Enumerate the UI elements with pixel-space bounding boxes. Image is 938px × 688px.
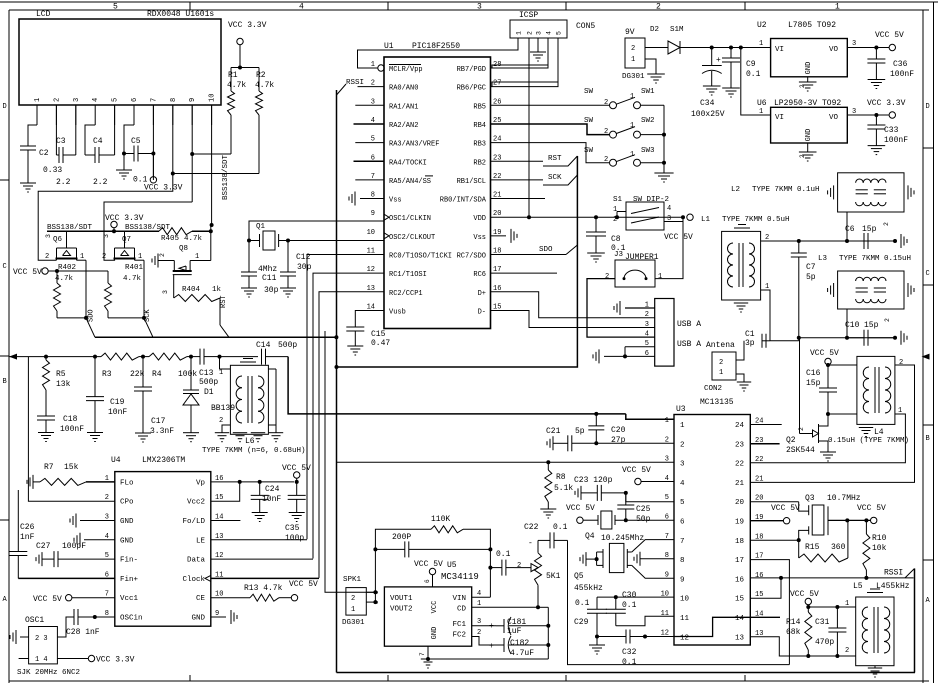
- resistor R15 360: [799, 520, 848, 562]
- svg-text:VCC: VCC: [431, 601, 439, 614]
- U3 pin23 number: [735, 437, 763, 450]
- svg-text:3: 3: [103, 234, 110, 238]
- svg-text:7: 7: [680, 538, 685, 546]
- capacitor C2: [20, 146, 62, 183]
- connector USB A: [655, 299, 702, 367]
- svg-text:20: 20: [735, 499, 745, 507]
- U3 pin24 number: [735, 418, 763, 431]
- capacitor C27 100pF: [36, 542, 115, 567]
- svg-text:TYPE 7KMM (n=6, 0.68uH): TYPE 7KMM (n=6, 0.68uH): [202, 447, 306, 455]
- label BSS138/SDT: [125, 224, 171, 232]
- capacitor C19 10nF: [86, 357, 127, 433]
- svg-text:1: 1: [630, 93, 634, 101]
- U3 pin7 number: [665, 533, 685, 546]
- U1 pin3 stub: [355, 104, 384, 106]
- svg-text:VOUT1: VOUT1: [390, 595, 413, 603]
- svg-text:D1: D1: [204, 388, 214, 397]
- power VCC 3.3V: [105, 214, 144, 233]
- svg-text:15: 15: [735, 596, 745, 604]
- LCD pin 5: [112, 98, 120, 125]
- USB pin5-6 wire: [604, 347, 655, 359]
- svg-text:VCC 3.3V: VCC 3.3V: [96, 656, 135, 665]
- U1 pin19 Vss ground: [491, 229, 518, 243]
- svg-text:Q4: Q4: [585, 532, 595, 541]
- svg-text:SDO: SDO: [88, 309, 96, 322]
- svg-text:C32: C32: [622, 648, 637, 657]
- svg-text:R1: R1: [228, 71, 238, 80]
- svg-text:GND: GND: [431, 627, 439, 640]
- USB pin 1: [645, 302, 649, 310]
- svg-text:DG301: DG301: [622, 73, 645, 81]
- resistor R402 4.7k: [54, 264, 87, 318]
- svg-text:BB139: BB139: [211, 404, 235, 413]
- IC U5 MC34119: [384, 561, 478, 646]
- U1 pin 18 label: [457, 253, 486, 261]
- svg-text:C29: C29: [574, 618, 589, 627]
- svg-text:C16: C16: [806, 369, 821, 378]
- svg-text:VCC 3.3V: VCC 3.3V: [228, 21, 267, 30]
- resistor R1 4.7k: [227, 68, 246, 155]
- U1 pin 11 label: [389, 253, 452, 261]
- resistor R2 4.7k: [255, 68, 274, 174]
- svg-text:C13: C13: [199, 369, 214, 378]
- svg-text:USB A: USB A: [677, 340, 701, 349]
- ground: [868, 80, 886, 89]
- svg-text:2.2: 2.2: [93, 178, 108, 187]
- ground: [289, 513, 305, 522]
- CON5 pin1 wire: [517, 38, 519, 47]
- power VCC 5V: [875, 31, 904, 40]
- svg-text:CE: CE: [196, 595, 206, 603]
- svg-text:C5: C5: [131, 137, 141, 146]
- resistor R401 4.7k: [105, 264, 145, 318]
- svg-text:0.33: 0.33: [43, 166, 62, 175]
- transistor Q8 BSS138: [152, 245, 211, 275]
- svg-text:C20: C20: [611, 426, 626, 435]
- U1 pin 15 label: [478, 308, 486, 316]
- resistor R14 68k: [786, 607, 812, 658]
- svg-text:3: 3: [73, 98, 81, 102]
- svg-text:DG301: DG301: [342, 619, 365, 627]
- svg-text:200P: 200P: [392, 533, 411, 542]
- U4 pin4 ground: [74, 533, 115, 547]
- svg-text:VCC 5V: VCC 5V: [414, 560, 443, 569]
- svg-text:Q2: Q2: [786, 436, 796, 445]
- U3 pin13 number: [735, 630, 763, 643]
- svg-text:2: 2: [680, 441, 685, 449]
- wire LE: [211, 539, 307, 541]
- LCD pin 2: [53, 98, 61, 125]
- svg-text:5p: 5p: [806, 273, 816, 282]
- U3 pin6 number: [665, 514, 685, 527]
- svg-text:2: 2: [159, 253, 166, 257]
- U1 pin 6 label: [389, 159, 427, 167]
- svg-text:MC34119: MC34119: [441, 572, 479, 582]
- svg-text:2: 2: [899, 359, 903, 367]
- svg-text:4: 4: [680, 480, 685, 488]
- svg-text:4.7k: 4.7k: [55, 275, 74, 283]
- svg-text:100pF: 100pF: [62, 542, 86, 551]
- OSC1 pin2 ground: [10, 630, 29, 644]
- USB pin 4: [645, 330, 649, 338]
- U4 pin1 label: [105, 475, 134, 488]
- wire S1 pin1: [617, 212, 626, 218]
- svg-text:RSSI: RSSI: [346, 79, 364, 87]
- svg-text:2: 2: [102, 253, 106, 261]
- U1 pin 21 label: [440, 197, 487, 205]
- ground: [233, 433, 247, 442]
- U4 pin16 label: [196, 475, 223, 488]
- inductor L2 transformer: [828, 173, 914, 212]
- svg-text:L2: L2: [731, 186, 740, 194]
- svg-text:Vcc2: Vcc2: [187, 499, 205, 507]
- svg-text:2: 2: [631, 45, 635, 53]
- svg-text:1: 1: [516, 31, 523, 35]
- U5 pin labels: [390, 595, 466, 640]
- svg-text:L455kHz: L455kHz: [876, 582, 910, 591]
- svg-text:C4: C4: [93, 137, 103, 146]
- CON5 pin2 wire: [528, 38, 530, 217]
- U1 pin28 wire: [491, 65, 549, 68]
- junction: [122, 152, 155, 156]
- power VCC 5V: [33, 595, 115, 605]
- svg-text:RB2: RB2: [473, 159, 486, 167]
- net flag RSSI: [884, 569, 915, 578]
- svg-text:1: 1: [351, 606, 355, 614]
- ground: [135, 433, 151, 442]
- U1 pin 2 label: [389, 85, 418, 93]
- ground: [251, 433, 265, 442]
- svg-text:SW3: SW3: [641, 147, 655, 155]
- U3 pin13 wire: [750, 637, 808, 656]
- capacitor C5: [124, 137, 153, 185]
- svg-text:9V: 9V: [625, 28, 635, 37]
- svg-text:SCK: SCK: [548, 174, 562, 182]
- svg-text:100k: 100k: [178, 370, 197, 379]
- svg-text:1: 1: [195, 253, 199, 261]
- wire L2 to C6: [846, 212, 848, 241]
- svg-text:5.1k: 5.1k: [554, 484, 573, 493]
- svg-text:R3: R3: [102, 370, 112, 379]
- svg-text:LMX2306TM: LMX2306TM: [142, 456, 185, 465]
- label BSS138/SDT vertical: [222, 154, 230, 200]
- wire C14 to U3 pin1: [288, 357, 674, 420]
- junction: [247, 239, 290, 243]
- capacitor C10 15p: [845, 318, 895, 346]
- wire L6 right pins: [269, 369, 277, 433]
- U3 pin5 number: [665, 494, 685, 507]
- wire pin9 net: [190, 105, 231, 202]
- wire pin9 diagonal: [627, 565, 674, 578]
- svg-text:FLo: FLo: [120, 479, 134, 487]
- svg-text:22k: 22k: [130, 370, 145, 379]
- svg-text:5K1: 5K1: [546, 572, 561, 581]
- resistor 110K: [431, 515, 463, 533]
- U3 pin20 number: [735, 495, 763, 508]
- capacitor 0.1 vin: [490, 550, 514, 576]
- zone labels top: [113, 3, 840, 12]
- wire gate rail: [47, 230, 159, 232]
- U1 pin 24 label: [473, 141, 486, 149]
- svg-text:R402: R402: [58, 264, 76, 272]
- svg-text:0.1: 0.1: [746, 70, 761, 79]
- U1 pin 25 number: [493, 117, 501, 125]
- wire FC1: [472, 618, 496, 631]
- svg-text:Vcc1: Vcc1: [120, 595, 139, 603]
- wire: [162, 275, 174, 298]
- svg-text:470p: 470p: [815, 638, 834, 647]
- U6 pin3 wire: [847, 108, 895, 118]
- capacitor C30 0.1: [597, 591, 674, 626]
- U3 pin21 number: [735, 475, 763, 488]
- svg-text:VO: VO: [829, 46, 839, 54]
- U1 pin17 stub: [491, 272, 558, 274]
- power VCC 5V pin4: [622, 466, 674, 485]
- LCD module U1601: [19, 10, 221, 105]
- wire OSC1 pin1: [19, 658, 29, 660]
- svg-text:17: 17: [735, 557, 744, 565]
- svg-text:23: 23: [735, 441, 745, 449]
- svg-text:GND: GND: [120, 518, 134, 526]
- power VCC 5V: [810, 349, 839, 367]
- svg-text:Q3: Q3: [805, 494, 815, 503]
- USB pin1 ground: [614, 301, 655, 315]
- IC U4 LMX2306TM: [111, 456, 211, 626]
- capacitor C13 500p: [197, 349, 220, 365]
- border arrow right: [922, 354, 930, 360]
- U1 pin8 Vss ground: [349, 192, 384, 206]
- label L3: [818, 255, 911, 263]
- wire Fin+: [18, 577, 115, 579]
- svg-text:1: 1: [219, 369, 223, 377]
- wire osc1 net: [249, 221, 384, 241]
- wire battery minus: [645, 59, 656, 74]
- USB pin 5: [645, 340, 649, 348]
- junction SDO node: [84, 309, 96, 322]
- ground: [530, 52, 546, 61]
- ground: [589, 637, 605, 655]
- resistor R3 22k: [101, 353, 149, 379]
- LCD pin 6: [131, 98, 139, 125]
- svg-text:B: B: [3, 378, 7, 386]
- U1 pin 12 label: [389, 271, 427, 279]
- U3 pin24 stub: [750, 424, 781, 426]
- U3 pin4 number: [665, 475, 685, 488]
- wire S1 pin3: [664, 221, 683, 223]
- capacitor C25 50p: [617, 493, 650, 524]
- U1 pin 24 number: [493, 136, 501, 144]
- wire J3 pin2 to USB pin4: [587, 279, 655, 338]
- capacitor C7 5p: [791, 241, 816, 338]
- svg-text:2: 2: [351, 595, 355, 603]
- wire pin8 net: [171, 105, 259, 176]
- svg-text:TYPE 7KMM 0.5uH: TYPE 7KMM 0.5uH: [722, 216, 790, 224]
- wire Clock: [211, 577, 319, 579]
- svg-text:9: 9: [371, 210, 375, 218]
- wire: [210, 223, 214, 261]
- ground: [868, 668, 882, 677]
- capacitor C11 30p: [241, 241, 279, 296]
- svg-text:68k: 68k: [786, 628, 801, 637]
- svg-text:Data: Data: [187, 557, 206, 565]
- svg-text:C: C: [926, 270, 930, 278]
- svg-text:Q8: Q8: [179, 245, 188, 253]
- U1 pin 4 label: [389, 122, 418, 130]
- U1 pin 8 number: [371, 192, 375, 200]
- CON5 pin 4: [546, 31, 553, 38]
- svg-text:SJK 20MHz 6NC2: SJK 20MHz 6NC2: [17, 669, 80, 677]
- capacitor C29 0.1: [574, 599, 607, 639]
- svg-text:100nF: 100nF: [884, 136, 908, 145]
- capacitor C33 100nF: [867, 115, 908, 146]
- U3 pin14 number: [735, 611, 763, 624]
- power VCC 3.3V: [228, 21, 267, 68]
- wire pin7 diagonal: [627, 540, 674, 552]
- svg-text:16: 16: [735, 576, 745, 584]
- CON5 pin 3: [536, 31, 543, 38]
- wire RSSI vertical: [336, 90, 338, 673]
- U1 pin6 stub: [354, 160, 385, 162]
- svg-text:19: 19: [735, 519, 744, 527]
- capacitor C31 470p: [808, 605, 855, 658]
- U1 pin 20 number: [493, 210, 501, 218]
- svg-text:Vusb: Vusb: [389, 308, 406, 316]
- ground: [183, 433, 199, 442]
- resistor R405 4.7k: [159, 228, 213, 243]
- wire Data: [211, 558, 313, 560]
- power VCC 5V L5: [790, 590, 819, 609]
- svg-text:C9: C9: [746, 60, 756, 69]
- svg-text:R8: R8: [556, 473, 566, 482]
- capacitor C181 1uF: [496, 617, 550, 636]
- wire CD right rail: [547, 607, 549, 645]
- wire: [645, 47, 668, 49]
- wire pin8 to Q6: [38, 174, 173, 261]
- capacitor C21 5p: [546, 427, 596, 451]
- inductor L4 transformer: [857, 356, 895, 437]
- svg-text:L3: L3: [818, 255, 828, 263]
- svg-text:CON2: CON2: [704, 385, 722, 393]
- net flag SDO: [491, 245, 578, 255]
- U5 GND pin: [419, 645, 548, 661]
- resistor R8 5.1k: [545, 462, 574, 509]
- U3 pin19 number: [735, 514, 763, 527]
- wire OSC1 pin3: [57, 627, 66, 637]
- ground: [421, 659, 435, 668]
- svg-text:VCC 3.3V: VCC 3.3V: [867, 99, 906, 108]
- U3 pin15 wire: [750, 578, 781, 598]
- U1 pin 16 label: [478, 290, 486, 298]
- wire: [712, 47, 771, 49]
- ground: [737, 382, 751, 391]
- svg-text:RA4/TOCKI: RA4/TOCKI: [389, 159, 427, 167]
- net flag RSSI: [337, 79, 385, 95]
- svg-text:21: 21: [755, 475, 763, 483]
- wire Q3 output: [828, 517, 877, 523]
- svg-text:C19: C19: [110, 398, 125, 407]
- svg-text:2: 2: [845, 647, 849, 655]
- U1 pin24 wire SW3: [491, 143, 610, 163]
- svg-text:2 3: 2 3: [35, 635, 48, 643]
- wire L4 pin1: [750, 407, 905, 463]
- svg-text:500p: 500p: [199, 378, 218, 387]
- svg-text:GND: GND: [805, 129, 813, 142]
- svg-text:U3: U3: [676, 405, 686, 414]
- U3 pin17 number: [735, 553, 763, 566]
- svg-text:100nF: 100nF: [890, 70, 914, 79]
- border arrow: [9, 354, 17, 360]
- svg-text:Antena: Antena: [706, 341, 735, 350]
- svg-text:R5: R5: [56, 370, 66, 379]
- svg-text:J3: J3: [614, 251, 624, 259]
- svg-text:500p: 500p: [278, 341, 297, 350]
- svg-text:VOUT2: VOUT2: [390, 606, 413, 614]
- capacitor C28 1nF: [66, 609, 115, 637]
- svg-text:C21: C21: [546, 427, 561, 436]
- junction VDD: [527, 215, 685, 219]
- U4 pin14 label: [182, 514, 223, 527]
- svg-text:7: 7: [150, 98, 158, 102]
- inductor L1 TYPE 7KMM 0.5uH: [701, 216, 790, 312]
- svg-text:S1: S1: [613, 196, 623, 204]
- svg-text:1: 1: [658, 273, 662, 281]
- ground: [895, 234, 907, 248]
- svg-text:-: -: [528, 539, 533, 548]
- svg-text:21: 21: [735, 480, 745, 488]
- svg-text:C22: C22: [524, 523, 539, 532]
- svg-text:C36: C36: [893, 60, 908, 69]
- ground: [347, 346, 363, 355]
- U4 pin13 label: [196, 533, 223, 546]
- svg-text:C182: C182: [510, 639, 529, 648]
- ground: [269, 433, 283, 442]
- U3 pin17 wire: [750, 560, 789, 665]
- svg-text:VCC 5V: VCC 5V: [875, 31, 904, 40]
- junction: [44, 355, 222, 359]
- svg-text:GND: GND: [191, 615, 205, 623]
- wire osc2 net: [288, 240, 384, 242]
- connector CON2 Antena: [704, 341, 744, 393]
- svg-text:15p: 15p: [864, 321, 879, 330]
- U1 pin 17 number: [493, 266, 501, 274]
- svg-text:R13 4.7k: R13 4.7k: [244, 584, 283, 593]
- CON5 pin 1: [516, 31, 523, 38]
- svg-text:OSC1: OSC1: [25, 616, 44, 625]
- svg-text:50p: 50p: [636, 515, 651, 524]
- U1 pin 12 number: [367, 266, 375, 274]
- connector CON5 ICSP: [510, 11, 595, 38]
- wire: [874, 666, 876, 668]
- svg-text:14: 14: [735, 615, 745, 623]
- svg-text:JUMPER1: JUMPER1: [625, 253, 659, 262]
- resistor R4 100k: [149, 353, 197, 379]
- capacitor C4: [85, 137, 115, 187]
- svg-text:2.2: 2.2: [56, 178, 71, 187]
- U1 pin 4 number: [371, 117, 375, 125]
- svg-text:2: 2: [719, 359, 723, 367]
- power VCC 3.3V: [867, 99, 906, 108]
- U1 pin21 stub: [491, 198, 546, 200]
- wire L1 pin2: [761, 240, 799, 242]
- svg-text:3: 3: [477, 3, 482, 12]
- capacitor C20 27p: [588, 412, 625, 445]
- svg-text:2: 2: [604, 128, 608, 136]
- wire CPo: [28, 357, 114, 502]
- svg-text:C15: C15: [371, 330, 386, 339]
- svg-text:3: 3: [645, 321, 649, 329]
- svg-text:FC2: FC2: [452, 632, 466, 640]
- svg-text:C23 120p: C23 120p: [574, 476, 613, 485]
